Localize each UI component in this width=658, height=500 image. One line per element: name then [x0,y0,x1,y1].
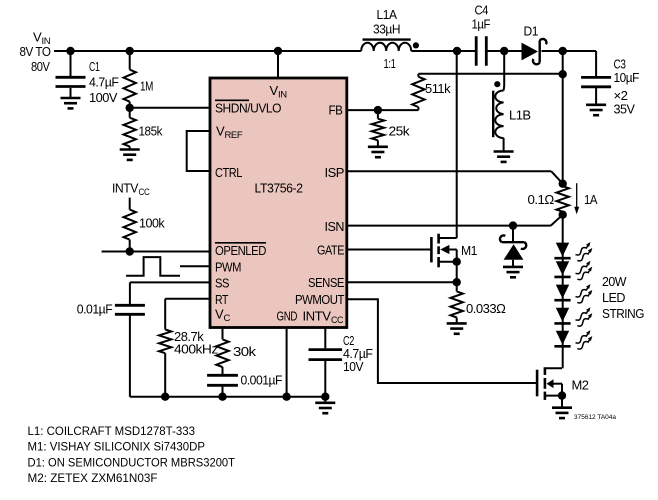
svg-text:M1: M1 [461,243,477,258]
junction dot [161,393,169,401]
LED D6 [554,308,570,324]
resistor R1 1M [124,51,136,108]
wire ISP [347,171,563,184]
svg-text:8V TO: 8V TO [20,44,51,59]
capacitor C6 0.001uF [207,375,238,396]
LED D6 light arrows [576,307,593,326]
svg-text:0.001µF: 0.001µF [241,373,283,388]
LED D5 [554,285,570,301]
IC pin label GND [277,309,298,324]
svg-text:PWM: PWM [215,260,241,275]
junction dot [66,47,74,55]
LED D4 light arrows [576,261,593,280]
wire ISN [347,215,563,226]
resistor R5 label [233,344,257,359]
svg-text:100V: 100V [89,90,118,105]
junction dot [559,180,567,188]
capacitor C1 [56,51,86,98]
wire LED string [562,215,564,369]
svg-text:1µF: 1µF [472,17,491,32]
wire VIN pin [277,51,279,78]
svg-text:ISN: ISN [325,219,345,234]
junction dot node SHDN [126,104,134,112]
svg-text:LT3756-2: LT3756-2 [255,181,303,196]
svg-text:10µF: 10µF [614,70,640,85]
svg-text:FB: FB [329,103,343,118]
resistor R6 25k [372,110,384,147]
capacitor C3 [581,51,611,105]
current 1A label [584,192,598,207]
transistor M1 label [461,243,477,258]
svg-text:LED: LED [602,290,625,305]
resistor R1 label [140,79,153,94]
resistor R8 label [528,192,555,207]
svg-text:M2: ZETEX ZXM61N03F: M2: ZETEX ZXM61N03F [28,473,158,485]
wire GATE [347,249,432,251]
svg-text:RT: RT [215,292,228,307]
diode D1 label [524,24,539,39]
capacitor C5 0.01uF [115,282,145,396]
current arrow 1A [574,183,579,214]
svg-text:INTV: INTV [112,181,139,196]
ground [120,150,140,160]
resistor R2 label [139,124,163,139]
IC U1 LT3756-2 block [210,78,347,328]
diode D1 schottky [522,39,547,64]
junction dot node FB top [559,70,567,78]
LED D4 [554,261,570,277]
wire VREF-CTRL loop [187,131,210,171]
diode D2 clamp schottky [500,226,526,267]
svg-text:1:1: 1:1 [384,56,396,71]
wire M1 drain [456,51,458,238]
IC pin label CTRL [215,165,242,180]
svg-text:L1A: L1A [377,7,398,22]
svg-text:0.033Ω: 0.033Ω [466,301,506,316]
wire PWM [180,265,210,267]
wire GND pin [286,328,288,397]
svg-text:33µH: 33µH [373,22,400,37]
svg-text:SENSE: SENSE [308,275,345,290]
ground [503,267,523,277]
svg-text:GND: GND [277,309,298,324]
svg-text:INTV: INTV [303,309,332,324]
junction dot [558,391,566,399]
ground [315,397,335,414]
capacitor C5 label [77,302,113,317]
PWM input waveform symbol [126,257,180,276]
wire SENSE [347,281,457,283]
wire M1 source [456,250,458,288]
IC pin label VC [215,307,230,325]
inductor L1A [361,40,411,51]
IC pin label INTVCC [303,309,344,327]
ground [552,396,572,419]
capacitor C1 value label [89,59,119,105]
junction dot [559,211,567,219]
wire SHDN [130,107,210,109]
svg-text:OPENLED: OPENLED [215,243,266,258]
junction dot [453,258,461,266]
svg-text:C4: C4 [475,3,489,18]
svg-text:L1: COILCRAFT MSD1278T-333: L1: COILCRAFT MSD1278T-333 [28,426,196,438]
svg-text:L1B: L1B [509,108,531,123]
phase dot L1A [413,42,419,48]
IC pin label PWMOUT [295,292,344,307]
svg-text:M1: VISHAY SILICONIX Si7430DP: M1: VISHAY SILICONIX Si7430DP [28,442,206,454]
svg-text:10V: 10V [343,359,364,374]
capacitor C3 label [614,57,640,117]
junction dot [126,47,134,55]
IC pin label PWM [215,260,241,275]
svg-text:1M: 1M [140,79,153,94]
wire [411,50,476,52]
ground [61,98,81,108]
svg-text:CTRL: CTRL [215,165,242,180]
IC pin label VIN [270,83,288,101]
junction dot [282,393,290,401]
node VIN label [20,30,51,75]
IC name label LT3756-2 [255,181,303,196]
IC pin label SS [215,276,230,291]
svg-text:ISP: ISP [325,165,345,180]
resistor R3 100k [124,198,136,252]
junction dot [500,47,508,55]
resistor R8 0.1ohm [557,184,569,215]
svg-text:0.01µF: 0.01µF [77,302,113,317]
BOM note D1 [28,457,236,469]
junction dot [218,393,226,401]
LED D7 light arrows [576,330,593,349]
BOM note L1 [28,426,196,438]
svg-text:0.1Ω: 0.1Ω [528,192,555,207]
wire FB feedback top [418,73,562,75]
svg-text:CC: CC [139,187,150,198]
resistor R3 label [139,216,165,231]
IC pin label ISP [325,165,345,180]
resistor R6 label [389,124,411,139]
IC pin label SENSE [308,275,345,290]
junction dot node VOUT [559,47,567,55]
svg-text:4.7µF: 4.7µF [89,75,119,90]
wire ground rail [130,396,325,398]
junction dot [321,393,329,401]
IC pin label FB [329,103,343,118]
capacitor C6 label [241,373,283,388]
resistor R2 185k [124,108,136,150]
BOM note M1 [28,442,206,454]
resistor R7 511k [412,74,424,110]
wire FB [347,109,419,111]
wire VOUT column [562,51,564,184]
junction dot [509,221,517,229]
transistor M2 label [572,378,589,393]
capacitor C2 label [343,333,373,374]
svg-text:185k: 185k [139,124,163,139]
IC pin label GATE [317,243,345,258]
IC pin label RT [215,292,228,307]
LED D3 light arrows [576,242,593,261]
wire [486,50,521,52]
junction dot [453,47,461,55]
svg-text:25k: 25k [389,124,411,139]
IC pin label VREF [216,124,243,142]
capacitor C4 label [472,3,491,32]
inductor L1B [493,86,504,152]
wire [542,50,597,52]
IC pin label OPENLED [215,243,266,258]
svg-text:1A: 1A [584,192,598,207]
svg-text:CC: CC [331,315,344,326]
node INTVCC label [112,181,150,199]
IC pin label SHDN/UVLO [215,100,281,115]
resistor R5 30k [216,328,228,375]
svg-text:400kHz: 400kHz [174,341,218,356]
BOM note M2 [28,473,158,485]
junction dot [274,47,282,55]
ground [447,323,467,333]
svg-text:GATE: GATE [317,243,345,258]
LED string label [602,274,644,321]
resistor R4 28.7k [159,299,171,397]
svg-text:STRING: STRING [602,306,644,321]
svg-text:SHDN/UVLO: SHDN/UVLO [215,101,281,116]
inductor L1A label [373,7,400,37]
capacitor C4 [476,36,486,66]
wire OPENLED [102,251,210,253]
svg-text:511k: 511k [425,81,451,96]
inductor L1B label [509,108,531,123]
turns ratio 1:1 label [384,56,396,71]
phase dot L1B [494,81,500,87]
LED D3 [554,243,570,259]
svg-text:20W: 20W [602,274,627,289]
wire SS [130,281,210,283]
svg-text:PWMOUT: PWMOUT [295,292,344,307]
resistor R4 label [174,329,218,356]
resistor R9 0.033ohm [451,288,463,324]
svg-text:C1: C1 [89,59,100,74]
svg-text:35V: 35V [614,102,636,117]
svg-text:100k: 100k [139,216,165,231]
wire PWMOUT [347,299,537,383]
resistor R7 label [425,81,451,96]
svg-text:SS: SS [215,276,230,291]
transistor M1 [431,234,456,268]
IC pin label ISN [325,219,345,234]
LED D7 [554,331,570,347]
svg-text:D1: ON SEMICONDUCTOR MBRS3200T: D1: ON SEMICONDUCTOR MBRS3200T [28,457,236,469]
svg-text:375612 TA04a: 375612 TA04a [574,414,617,421]
schematic id label [574,414,617,421]
junction dot [374,106,382,114]
ground [368,147,388,157]
resistor R9 label [466,301,506,316]
LED D5 light arrows [576,284,593,303]
svg-text:D1: D1 [524,24,539,39]
ground [586,105,606,115]
transistor M2 [537,367,562,400]
wire [503,51,505,86]
junction dot [453,278,461,286]
capacitor C2 [309,328,343,397]
ground [494,152,514,162]
svg-text:80V: 80V [31,59,50,74]
wire RT [165,298,210,300]
svg-text:M2: M2 [572,378,589,393]
node VIN input rail wire [54,50,361,52]
junction dot [126,247,134,255]
svg-text:30k: 30k [233,344,257,359]
